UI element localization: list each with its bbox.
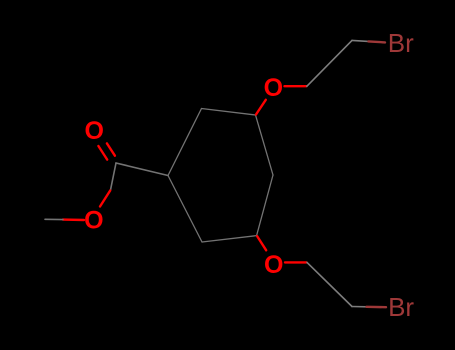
wire ring edge V3-V4 xyxy=(257,175,273,236)
bond O - CH2 (red) xyxy=(285,85,307,87)
bond CH2-Br gray half xyxy=(352,40,369,41)
bond CH2-CH2 (gray) xyxy=(307,40,352,86)
wire ring edge V0-V1 xyxy=(168,109,202,176)
svg-text:Br: Br xyxy=(388,292,414,322)
wire ring edge V2-V3 xyxy=(256,115,274,175)
carbonyl C=O double bond (red) xyxy=(98,146,107,160)
bond CH2-Br dark red half xyxy=(369,41,386,42)
bond CH2-CH2 (gray) xyxy=(307,262,352,306)
ester group xyxy=(45,143,168,220)
bond O-CH3 gray half (methyl) xyxy=(45,218,63,220)
svg-text:O: O xyxy=(84,117,103,145)
bond C7-O ester gray half xyxy=(111,163,117,190)
bottom 2-bromoethoxy chain xyxy=(257,236,386,307)
top 2-bromoethoxy chain xyxy=(256,40,385,114)
bond ring V2 - O top (red) xyxy=(256,100,266,115)
bond ring V4 - O bottom (red) xyxy=(257,236,266,250)
benzene ring xyxy=(168,109,273,243)
bond CH2-Br gray half xyxy=(352,306,367,308)
svg-text:O: O xyxy=(264,251,283,279)
bond O - CH2 (red) xyxy=(285,261,307,263)
wire ring edge V5-V0 xyxy=(168,176,202,243)
svg-text:O: O xyxy=(264,74,283,102)
bond C7-O ester red half xyxy=(100,191,110,207)
svg-text:O: O xyxy=(84,206,103,234)
wire ring edge V1-V2 xyxy=(202,109,256,116)
wire ring edge V4-V5 xyxy=(202,236,257,242)
bond CH2-Br dark red half xyxy=(367,306,387,309)
bond C7-ring (gray) xyxy=(116,163,168,176)
bond O-CH3 red half xyxy=(63,218,84,221)
svg-text:Br: Br xyxy=(388,28,414,58)
